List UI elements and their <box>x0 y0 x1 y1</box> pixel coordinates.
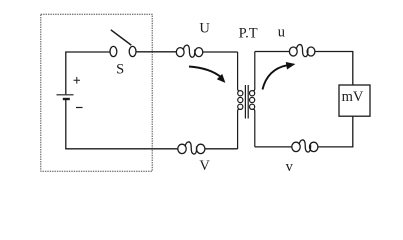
wire: mV meter down to bottom-right rail <box>318 116 353 147</box>
svg-text:mV: mV <box>342 89 364 105</box>
transformer P.T primary winding (left) <box>238 52 243 149</box>
coil U (terminal coil on top-left wire) <box>176 45 203 57</box>
curved arrow from transformer secondary toward u <box>263 62 296 90</box>
battery minus sign <box>76 107 83 109</box>
millivoltmeter mV box <box>339 85 370 116</box>
wire: switch to coil U <box>136 51 176 53</box>
wire: coil u to mV meter <box>315 52 353 86</box>
wire: coil v to transformer secondary bottom <box>255 146 292 148</box>
switch S right contact circle <box>129 46 136 56</box>
transformer P.T secondary winding (right) <box>250 52 255 147</box>
svg-text:u: u <box>278 24 285 40</box>
svg-text:V: V <box>199 158 210 174</box>
wire: coil U to transformer primary top <box>203 51 238 53</box>
wire: battery negative lead down to bottom rail <box>65 99 67 149</box>
switch S left contact circle <box>110 46 117 56</box>
battery E negative plate <box>63 98 70 100</box>
transformer P.T core lines <box>245 85 248 119</box>
wire: transformer secondary top to coil u <box>255 51 289 53</box>
dashed enclosure box <box>41 14 152 171</box>
curved arrow from U toward transformer <box>189 67 225 83</box>
battery E positive plate <box>57 94 74 96</box>
wire: bottom rail battery to coil V <box>65 148 178 150</box>
wire: coil V to transformer primary bottom <box>206 148 238 150</box>
wire: battery positive lead up and right to switch <box>66 52 110 94</box>
switch S lever <box>111 30 132 45</box>
battery plus sign <box>74 77 81 84</box>
coil v (terminal coil on bottom-right wire) <box>292 140 318 152</box>
svg-text:P.T: P.T <box>239 25 258 41</box>
svg-text:S: S <box>116 61 124 77</box>
coil u (terminal coil on top-right wire) <box>289 45 315 57</box>
coil V (terminal coil on bottom-left wire) <box>178 142 205 154</box>
svg-text:v: v <box>286 159 294 175</box>
svg-text:U: U <box>199 21 210 37</box>
